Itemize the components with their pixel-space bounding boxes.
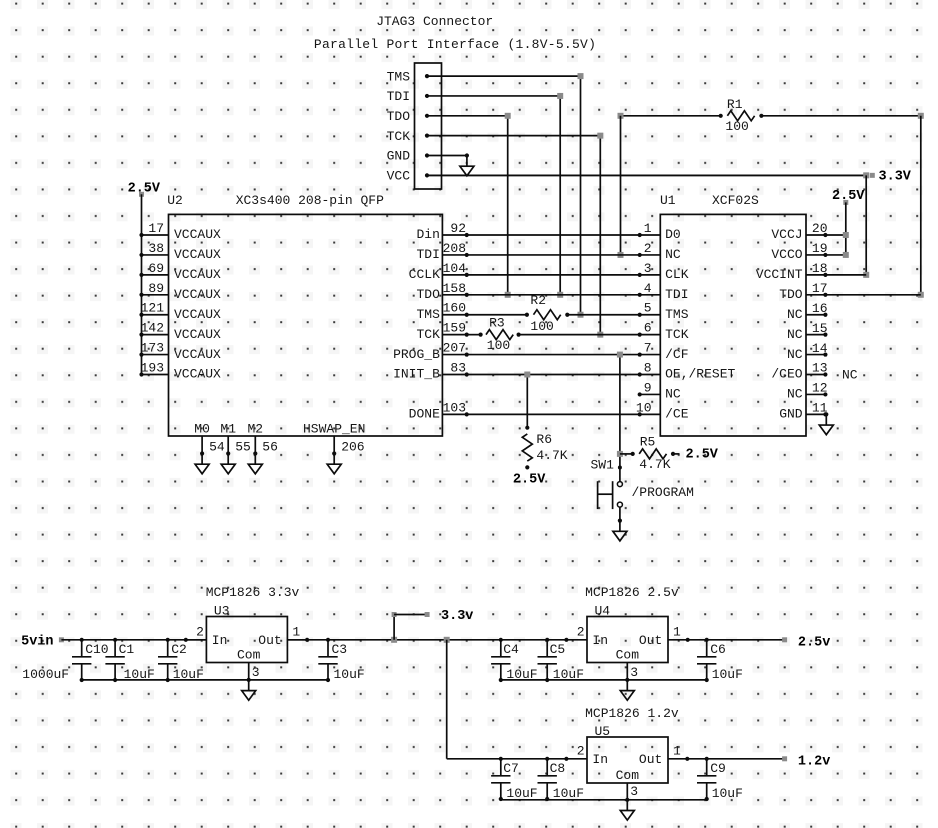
svg-text:4.7K: 4.7K: [639, 457, 670, 472]
pin dot TDI: [425, 94, 429, 98]
junction at U1 TDO row: [918, 292, 924, 298]
wire R5 tap to resistor: [620, 453, 633, 455]
wire VCC to 3.3V net label: [427, 174, 866, 176]
svg-text:207: 207: [443, 341, 466, 356]
node 3.3v flag: [391, 637, 397, 643]
svg-text:92: 92: [450, 221, 466, 236]
svg-text:C9: C9: [710, 761, 726, 776]
junction pin20: [843, 232, 849, 238]
pin dot 158: [465, 293, 469, 297]
switch SW1: [618, 466, 622, 470]
pin dot 13: [823, 372, 827, 376]
svg-text:Out: Out: [639, 633, 662, 648]
wire U1 pin 19 stub: [806, 254, 825, 256]
svg-text:103: 103: [443, 400, 466, 415]
svg-text:55: 55: [235, 440, 251, 455]
pin dot 55: [226, 451, 230, 455]
svg-text:VCCAUX: VCCAUX: [174, 347, 221, 362]
pin dot 8: [638, 372, 642, 376]
wire U3 Out rail: [287, 639, 500, 641]
junction TDI top: [557, 93, 563, 99]
voltage regulator U5 body: [587, 737, 668, 783]
wire U5 Out rail: [668, 758, 785, 760]
svg-text:Din: Din: [416, 227, 439, 242]
svg-text:5: 5: [644, 301, 652, 316]
wire U1 pin 10 stub: [640, 413, 661, 415]
wire U1 pin 4 stub: [640, 294, 661, 296]
wire U4 Out rail: [687, 639, 784, 641]
pin dot 5: [638, 313, 642, 317]
pin dot In: [184, 638, 188, 642]
junction 3.3V corner: [863, 172, 869, 178]
svg-text:VCCO: VCCO: [771, 247, 802, 262]
pin dot 89: [139, 293, 143, 297]
wire TCK from connector: [427, 135, 600, 137]
junction TDI bottom: [557, 292, 563, 298]
pin dot 54: [200, 451, 204, 455]
wire U1 pin 7 stub: [640, 354, 661, 356]
pin dot 193: [139, 372, 143, 376]
pin dot 4: [638, 293, 642, 297]
svg-text:TCK: TCK: [416, 327, 440, 342]
wire U1 pin 3 stub: [640, 274, 661, 276]
svg-text:Out: Out: [639, 752, 662, 767]
svg-text:DONE: DONE: [409, 407, 440, 422]
svg-text:2: 2: [644, 241, 652, 256]
svg-text:89: 89: [148, 281, 164, 296]
svg-text:10uF: 10uF: [712, 786, 743, 801]
svg-text:TDO: TDO: [387, 109, 411, 124]
junction R1 left: [618, 113, 624, 119]
svg-text:R2: R2: [530, 293, 546, 308]
junction pin19: [843, 252, 849, 258]
svg-text:173: 173: [141, 341, 164, 356]
wire U1 pin 18 stub: [806, 274, 825, 276]
svg-text:/PROGRAM: /PROGRAM: [632, 485, 694, 500]
wire U4 return rail: [501, 679, 707, 681]
svg-text:15: 15: [812, 321, 828, 336]
svg-text:C6: C6: [710, 642, 726, 657]
ic U2 XC3s400 body: [169, 214, 443, 436]
svg-text:TMS: TMS: [416, 307, 440, 322]
wire VCCAUX pin 142 stub: [142, 334, 169, 336]
svg-text:VCCAUX: VCCAUX: [174, 267, 221, 282]
svg-text:/CEO: /CEO: [771, 367, 802, 382]
svg-text:VCCAUX: VCCAUX: [174, 327, 221, 342]
wire In stub: [186, 639, 207, 641]
wire TMS vertical drop to R2 net: [580, 76, 582, 315]
svg-text:U3: U3: [214, 604, 230, 619]
wire TDI vertical drop to TDI net: [559, 96, 561, 295]
svg-text:XCF02S: XCF02S: [712, 193, 759, 208]
svg-text:R3: R3: [489, 316, 505, 331]
capacitor C4: [500, 640, 502, 657]
svg-text:VCCINT: VCCINT: [756, 267, 803, 282]
pin dot Out: [686, 638, 690, 642]
svg-text:M2: M2: [247, 422, 263, 437]
wire GND from connector: [427, 155, 467, 157]
wire VCCAUX pin 173 stub: [142, 354, 169, 356]
wire TDO from connector: [427, 115, 508, 117]
svg-text:18: 18: [812, 261, 828, 276]
svg-text:3: 3: [630, 784, 638, 799]
wire U2 pin 56 stub: [254, 436, 256, 454]
svg-text:16: 16: [812, 301, 828, 316]
ground under M2: [254, 454, 256, 465]
svg-text:56: 56: [262, 440, 278, 455]
wire U1 pin 9 stub: [640, 393, 661, 395]
svg-text:NC: NC: [787, 307, 803, 322]
wire VCCJ pin20 to riser: [825, 234, 845, 236]
wire U1 pin 14 stub: [806, 354, 825, 356]
svg-text:13: 13: [812, 361, 828, 376]
svg-text:MCP1826 1.2v: MCP1826 1.2v: [585, 706, 679, 721]
resistor R3: [479, 333, 483, 337]
svg-text:142: 142: [141, 321, 164, 336]
svg-text:SW1: SW1: [590, 458, 614, 473]
svg-text:8: 8: [644, 361, 652, 376]
svg-text:12: 12: [812, 381, 828, 396]
svg-text:VCCAUX: VCCAUX: [174, 307, 221, 322]
pin dot TMS: [425, 74, 429, 78]
svg-text:TCK: TCK: [387, 129, 411, 144]
pin dot 103: [465, 412, 469, 416]
wire TMS from connector: [427, 75, 581, 77]
wire rail C4 to U4 In: [501, 639, 567, 641]
wire U3 input return rail: [82, 679, 328, 681]
svg-text:Com: Com: [237, 648, 261, 663]
svg-text:104: 104: [443, 261, 467, 276]
wire U1 pin 5 stub: [640, 314, 661, 316]
wire U2 pin 104 stub: [442, 274, 466, 276]
svg-text:VCCJ: VCCJ: [771, 227, 802, 242]
svg-text:TDI: TDI: [665, 287, 688, 302]
svg-text:TDI: TDI: [416, 247, 439, 262]
capacitor C2: [167, 640, 169, 657]
svg-text:C2: C2: [171, 642, 187, 657]
svg-text:VCCAUX: VCCAUX: [174, 247, 221, 262]
svg-text:NC: NC: [787, 327, 803, 342]
voltage regulator U4 body: [587, 617, 668, 663]
wire Out stub: [287, 639, 307, 641]
wire U2 pin 207 stub: [442, 354, 466, 356]
capacitor C7: [500, 759, 502, 776]
wire R1 right drop to TDO net: [920, 116, 922, 295]
svg-text:3.3v: 3.3v: [441, 609, 473, 624]
junction TCK bottom: [597, 332, 603, 338]
svg-text:38: 38: [148, 241, 164, 256]
node 2.5v marker: [782, 637, 787, 642]
wire /CF net down to SW1: [619, 355, 621, 482]
svg-text:NC: NC: [665, 387, 681, 402]
svg-text:14: 14: [812, 341, 828, 356]
svg-text:XC3s400 208-pin QFP: XC3s400 208-pin QFP: [236, 193, 384, 208]
ground under U3: [247, 678, 251, 682]
svg-text:2.5V: 2.5V: [128, 181, 161, 196]
connector JTAG3 body: [415, 63, 442, 189]
ground at U1 GND pin11: [824, 413, 827, 415]
svg-text:1000uF: 1000uF: [22, 667, 69, 682]
ground under M1: [227, 454, 229, 465]
svg-text:MCP1826 3.3v: MCP1826 3.3v: [206, 585, 300, 600]
wire VCCAUX pin 38 stub: [142, 254, 169, 256]
svg-text:10uF: 10uF: [553, 786, 584, 801]
junction R1 right: [918, 113, 924, 119]
svg-text:R6: R6: [536, 432, 552, 447]
svg-text:83: 83: [450, 361, 466, 376]
svg-text:Com: Com: [616, 648, 640, 663]
svg-text:Parallel Port Interface (1.8V-: Parallel Port Interface (1.8V-5.5V): [314, 37, 596, 52]
svg-text:100: 100: [530, 319, 553, 334]
wire PROG_B to /CF: [467, 354, 640, 356]
pin dot 10: [638, 412, 642, 416]
wire U2 pin 55 stub: [227, 436, 229, 454]
svg-text:C4: C4: [503, 642, 519, 657]
svg-text:PROG_B: PROG_B: [393, 347, 440, 362]
svg-text:1.2v: 1.2v: [798, 755, 830, 770]
svg-text:100: 100: [487, 338, 510, 353]
svg-text:2: 2: [196, 625, 204, 640]
wire U1 pin 1 stub: [640, 234, 661, 236]
svg-text:4.7K: 4.7K: [536, 448, 567, 463]
svg-text:U4: U4: [595, 604, 611, 619]
node 1.2v marker: [782, 756, 787, 761]
svg-text:Out: Out: [258, 633, 281, 648]
svg-text:121: 121: [141, 301, 165, 316]
pin dot 142: [139, 333, 143, 337]
wire U1 pin 20 stub: [806, 234, 825, 236]
pin dot Out: [305, 638, 309, 642]
wire U4 Com stub: [626, 663, 628, 680]
svg-text:C1: C1: [119, 642, 135, 657]
wire U2 pin 206 stub: [333, 436, 335, 454]
svg-text:4: 4: [644, 281, 652, 296]
wire U1 TDO pin17 to right edge: [825, 294, 920, 296]
svg-text:3: 3: [644, 261, 652, 276]
wire U2 pin 208 stub: [442, 254, 466, 256]
svg-text:MCP1826 2.5v: MCP1826 2.5v: [585, 585, 679, 600]
wire TMS row left of R2: [467, 314, 527, 316]
node 2.5V marker U1: [843, 200, 848, 205]
svg-text:1: 1: [673, 744, 681, 759]
svg-text:19: 19: [812, 241, 828, 256]
wire TDO vertical drop to U2 TDO net: [507, 116, 509, 295]
svg-text:2.5v: 2.5v: [798, 636, 830, 651]
wire TDO-158 to U1 TDI: [467, 294, 640, 296]
svg-text:HSWAP_EN: HSWAP_EN: [303, 422, 365, 437]
pin dot 104: [465, 273, 469, 277]
resistor R2: [525, 313, 529, 317]
wire OE net down to R6: [526, 375, 528, 428]
svg-text:158: 158: [443, 281, 466, 296]
ground under HSWAP_EN: [333, 454, 335, 465]
wire branch down to U5 row: [446, 640, 448, 759]
pin dot 3: [638, 273, 642, 277]
svg-text:10uF: 10uF: [334, 667, 365, 682]
wire U1 pin 15 stub: [806, 334, 825, 336]
wire VCC from connector: [427, 174, 866, 176]
pin dot 121: [139, 313, 143, 317]
pin dot 92: [465, 233, 469, 237]
pin dot 1: [638, 233, 642, 237]
svg-text:C10: C10: [85, 642, 108, 657]
ground under U4: [625, 678, 629, 682]
pin dot 206: [332, 451, 336, 455]
wire TCK row right of R3: [519, 334, 640, 336]
pin dot In: [564, 757, 568, 761]
capacitor C1: [114, 640, 116, 657]
pin dot 16: [823, 313, 827, 317]
wire U5 Com stub: [626, 783, 628, 800]
wire VCCAUX pin 17 stub: [142, 234, 169, 236]
wire Out stub: [668, 639, 688, 641]
junction VCCINT: [863, 272, 869, 278]
svg-text:GND: GND: [779, 407, 803, 422]
svg-text:C8: C8: [550, 761, 566, 776]
wire U2 pin 159 stub: [442, 334, 466, 336]
svg-text:193: 193: [141, 361, 164, 376]
capacitor C5: [546, 640, 548, 657]
svg-text:TDO: TDO: [779, 287, 803, 302]
wire VCCAUX pin 121 stub: [142, 314, 169, 316]
pin dot 207: [465, 352, 469, 356]
svg-text:2.5V: 2.5V: [686, 447, 719, 462]
svg-text:CCLK: CCLK: [409, 267, 440, 282]
wire VCCO pin19 to riser: [825, 254, 845, 256]
svg-text:VCC: VCC: [387, 169, 411, 184]
wire U1 pin 13 stub: [806, 374, 825, 376]
pin dot 56: [253, 451, 257, 455]
svg-text:M0: M0: [194, 422, 210, 437]
ground under SW1: [618, 519, 622, 523]
wire U1 pin 17 stub: [806, 294, 825, 296]
capacitor C8: [546, 759, 548, 776]
capacitor C3: [327, 640, 329, 657]
pin dot 38: [139, 253, 143, 257]
svg-text:VCCAUX: VCCAUX: [174, 227, 221, 242]
pin dot 69: [139, 273, 143, 277]
voltage regulator U3 body: [206, 617, 287, 663]
wire TDI-208 to U1 pin2: [467, 254, 640, 256]
svg-text:17: 17: [812, 281, 828, 296]
svg-text:Com: Com: [616, 768, 640, 783]
ic U1 XCF02S body: [660, 214, 806, 436]
pin dot 17: [139, 233, 143, 237]
wire TCK vertical drop to R3 net: [599, 136, 601, 335]
pin dot 9: [638, 392, 642, 396]
pin dot 12: [823, 392, 827, 396]
junction R5 tap: [617, 451, 623, 457]
junction R6 top: [524, 372, 530, 378]
wire TDI from connector: [427, 95, 560, 97]
wire 3.3V down to U1 VCCINT: [865, 175, 867, 275]
svg-text:1: 1: [644, 221, 652, 236]
svg-text:TDO: TDO: [416, 287, 440, 302]
pin dot 19: [823, 253, 827, 257]
junction TDO top: [505, 113, 511, 119]
wire U2 pin 103 stub: [442, 413, 466, 415]
wire U3 Com stub: [248, 663, 250, 680]
svg-text:M1: M1: [220, 422, 236, 437]
svg-text:U5: U5: [595, 724, 611, 739]
svg-text:5vin: 5vin: [21, 635, 53, 650]
svg-text:2.5V: 2.5V: [513, 472, 546, 487]
node 3.3V marker: [870, 173, 875, 178]
junction at /CF row: [617, 352, 623, 358]
svg-text:1: 1: [292, 625, 300, 640]
pin dot 14: [823, 352, 827, 356]
svg-text:In: In: [212, 633, 228, 648]
pin dot 18: [823, 273, 827, 277]
pin dot 15: [823, 333, 827, 337]
svg-text:In: In: [592, 752, 608, 767]
wire 3.3v feed to U5 row: [447, 758, 567, 760]
wire U1 pin 11 stub: [806, 413, 825, 415]
svg-text:2.5V: 2.5V: [832, 189, 865, 204]
pin dot 7: [638, 352, 642, 356]
svg-text:R1: R1: [727, 97, 743, 112]
svg-text:3: 3: [630, 665, 638, 680]
svg-text:6: 6: [644, 321, 652, 336]
wire SW1 to ground: [619, 507, 621, 520]
capacitor C9: [706, 759, 708, 776]
junction at U1 pin2 row: [618, 252, 624, 258]
pin dot TCK: [425, 134, 429, 138]
svg-text:JTAG3 Connector: JTAG3 Connector: [376, 14, 493, 29]
svg-text:160: 160: [443, 301, 466, 316]
svg-text:TDI: TDI: [387, 89, 410, 104]
capacitor C6: [706, 640, 708, 657]
wire U2 pin 83 stub: [442, 374, 466, 376]
junction TMS bottom: [578, 312, 584, 318]
svg-text:VCCAUX: VCCAUX: [174, 367, 221, 382]
svg-text:10uF: 10uF: [506, 786, 537, 801]
wire VCCAUX pin 89 stub: [142, 294, 169, 296]
wire INIT_B to OE/RESET: [467, 374, 640, 376]
svg-text:2: 2: [577, 625, 585, 640]
svg-text:U2: U2: [167, 193, 183, 208]
ground under U5: [625, 798, 629, 802]
pin dot 2: [638, 253, 642, 257]
svg-text:U1: U1: [660, 193, 676, 208]
svg-text:NC: NC: [787, 387, 803, 402]
wire TCK row left of R3: [467, 334, 481, 336]
pin dot TDO: [425, 114, 429, 118]
node 5vin marker: [59, 637, 64, 642]
node 2.5V marker U2: [139, 192, 144, 197]
wire U1 pin 8 stub: [640, 374, 661, 376]
wire VCCAUX pin 69 stub: [142, 274, 169, 276]
wire U5 In stub: [566, 758, 587, 760]
wire U1 pin 12 stub: [806, 393, 825, 395]
junction TCK top: [597, 133, 603, 139]
svg-text:D0: D0: [665, 227, 681, 242]
svg-text:54: 54: [209, 440, 225, 455]
pin dot VCC: [425, 173, 429, 177]
svg-text:100: 100: [725, 119, 748, 134]
resistor R6: [525, 426, 529, 430]
wire U2 pin 54 stub: [201, 436, 203, 454]
ground symbol at connector GND: [466, 156, 468, 167]
svg-text:7: 7: [644, 341, 652, 356]
wire 5vin rail to U3 In: [61, 639, 206, 641]
junction TMS top: [578, 73, 584, 79]
wire 2.5V bus to VCCAUX pins: [141, 194, 143, 374]
svg-text:OE,/RESET: OE,/RESET: [665, 367, 735, 382]
resistor R1: [621, 115, 721, 117]
pin dot 11: [823, 412, 827, 416]
wire U2 pin 92 stub: [442, 234, 466, 236]
